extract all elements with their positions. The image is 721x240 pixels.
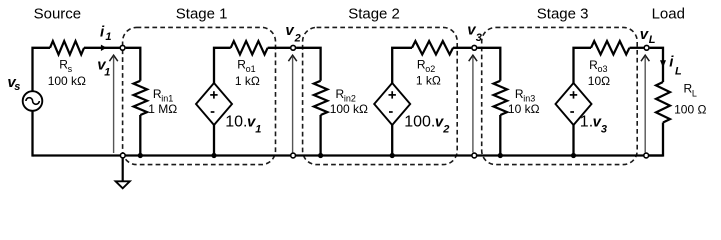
svg-text:10Ω: 10Ω [588, 74, 610, 88]
svg-text:s: s [14, 81, 20, 93]
dep source U2 wires [392, 48, 412, 84]
svg-text:2: 2 [294, 33, 301, 45]
svg-text:2: 2 [442, 124, 449, 136]
svg-text:3: 3 [601, 124, 607, 136]
node v3 (bottom) [472, 153, 477, 158]
junction Rin3 bottom [498, 153, 503, 158]
wire: Rin1 to bottom [139, 115, 141, 156]
wire: source branch top [33, 48, 51, 92]
svg-text:L: L [675, 66, 682, 78]
svg-text:1 MΩ: 1 MΩ [148, 102, 177, 116]
wire Ro2 to v3 [453, 47, 471, 49]
resistor Rs [50, 41, 84, 54]
svg-text:1 kΩ: 1 kΩ [416, 74, 441, 88]
svg-text:o1: o1 [246, 64, 256, 74]
svg-text:1: 1 [104, 67, 110, 79]
svg-text:Source: Source [34, 6, 82, 23]
wire: Rin3 to bottom [499, 115, 501, 156]
wire: vL to load corner and down [650, 48, 663, 82]
svg-text:1.: 1. [580, 113, 593, 130]
dep source U3 wires [574, 48, 592, 84]
dependent source 100.v2 (diamond) [374, 83, 410, 125]
stage 2 dashed box [303, 27, 458, 164]
arrowhead iL [660, 60, 666, 67]
dependent source 1.v3 (diamond) [556, 83, 592, 125]
junction dep3 bottom [571, 153, 576, 158]
voltage arrow v1 [113, 57, 115, 153]
svg-text:10.: 10. [225, 113, 247, 130]
voltage arrow v3 [472, 57, 474, 152]
junction dep2 bottom [390, 153, 395, 158]
wire: v2 node to Rin2 [296, 48, 321, 81]
svg-text:Stage 3: Stage 3 [537, 6, 589, 23]
svg-text:s: s [68, 64, 73, 74]
svg-text:1: 1 [255, 124, 261, 136]
svg-text:Load: Load [652, 6, 685, 23]
wire: source branch bottom [31, 111, 33, 157]
ground [122, 158, 124, 181]
wire: v3 node to Rin3 [477, 48, 500, 81]
wire Ro1 to v2 [268, 47, 291, 49]
svg-text:L: L [649, 34, 656, 46]
svg-text:100 kΩ: 100 kΩ [48, 74, 86, 88]
resistor Rin3 [494, 81, 508, 115]
resistor Rin2 [314, 81, 328, 115]
svg-text:Stage 2: Stage 2 [348, 6, 400, 23]
svg-text:1 kΩ: 1 kΩ [235, 74, 260, 88]
resistor Ro1 [231, 41, 268, 54]
dependent source 10.v1 (diamond) [196, 83, 232, 125]
arrowhead i1 [101, 45, 107, 51]
svg-text:o3: o3 [598, 64, 608, 74]
junction Rin2 bottom [318, 153, 323, 158]
dep source U1 wires [214, 48, 231, 84]
wire Ro3 to vL [630, 47, 644, 49]
voltage source vs (AC) [23, 91, 43, 111]
svg-text:10 kΩ: 10 kΩ [508, 102, 540, 116]
node v2 (top) [291, 45, 296, 50]
stage 1 dashed box [123, 27, 276, 164]
voltage arrow v2 [292, 57, 294, 152]
svg-text:100 Ω: 100 Ω [674, 102, 706, 116]
node vL (bottom) [644, 153, 649, 158]
svg-text:100 kΩ: 100 kΩ [330, 102, 368, 116]
node v2 (bottom) [291, 153, 296, 158]
wire: v1 node to Rin1 [126, 48, 141, 81]
node v1 (bottom) [120, 153, 125, 158]
voltage arrow vL [644, 57, 646, 152]
resistor Rin1 [134, 81, 148, 115]
resistor RL [656, 82, 670, 123]
junction dep1 bottom [211, 153, 216, 158]
resistor Ro3 [591, 41, 629, 54]
svg-text:3: 3 [476, 32, 482, 44]
wire with current arrow i1 [84, 47, 120, 49]
svg-text:1: 1 [105, 31, 111, 43]
svg-text:o2: o2 [425, 64, 435, 74]
node vL (top) [644, 45, 649, 50]
svg-text:L: L [692, 89, 697, 99]
wire: Rin2 to bottom [319, 115, 321, 156]
node v1 (top) [120, 45, 125, 50]
bottom wire [33, 154, 664, 156]
wire: RL to bottom [649, 123, 663, 156]
junction Rin1 bottom [138, 153, 143, 158]
resistor Ro2 [412, 41, 453, 54]
stage 3 dashed box [482, 27, 638, 164]
svg-text:100.: 100. [404, 113, 435, 130]
node v3 (top) [472, 45, 477, 50]
svg-text:Stage 1: Stage 1 [176, 6, 228, 23]
